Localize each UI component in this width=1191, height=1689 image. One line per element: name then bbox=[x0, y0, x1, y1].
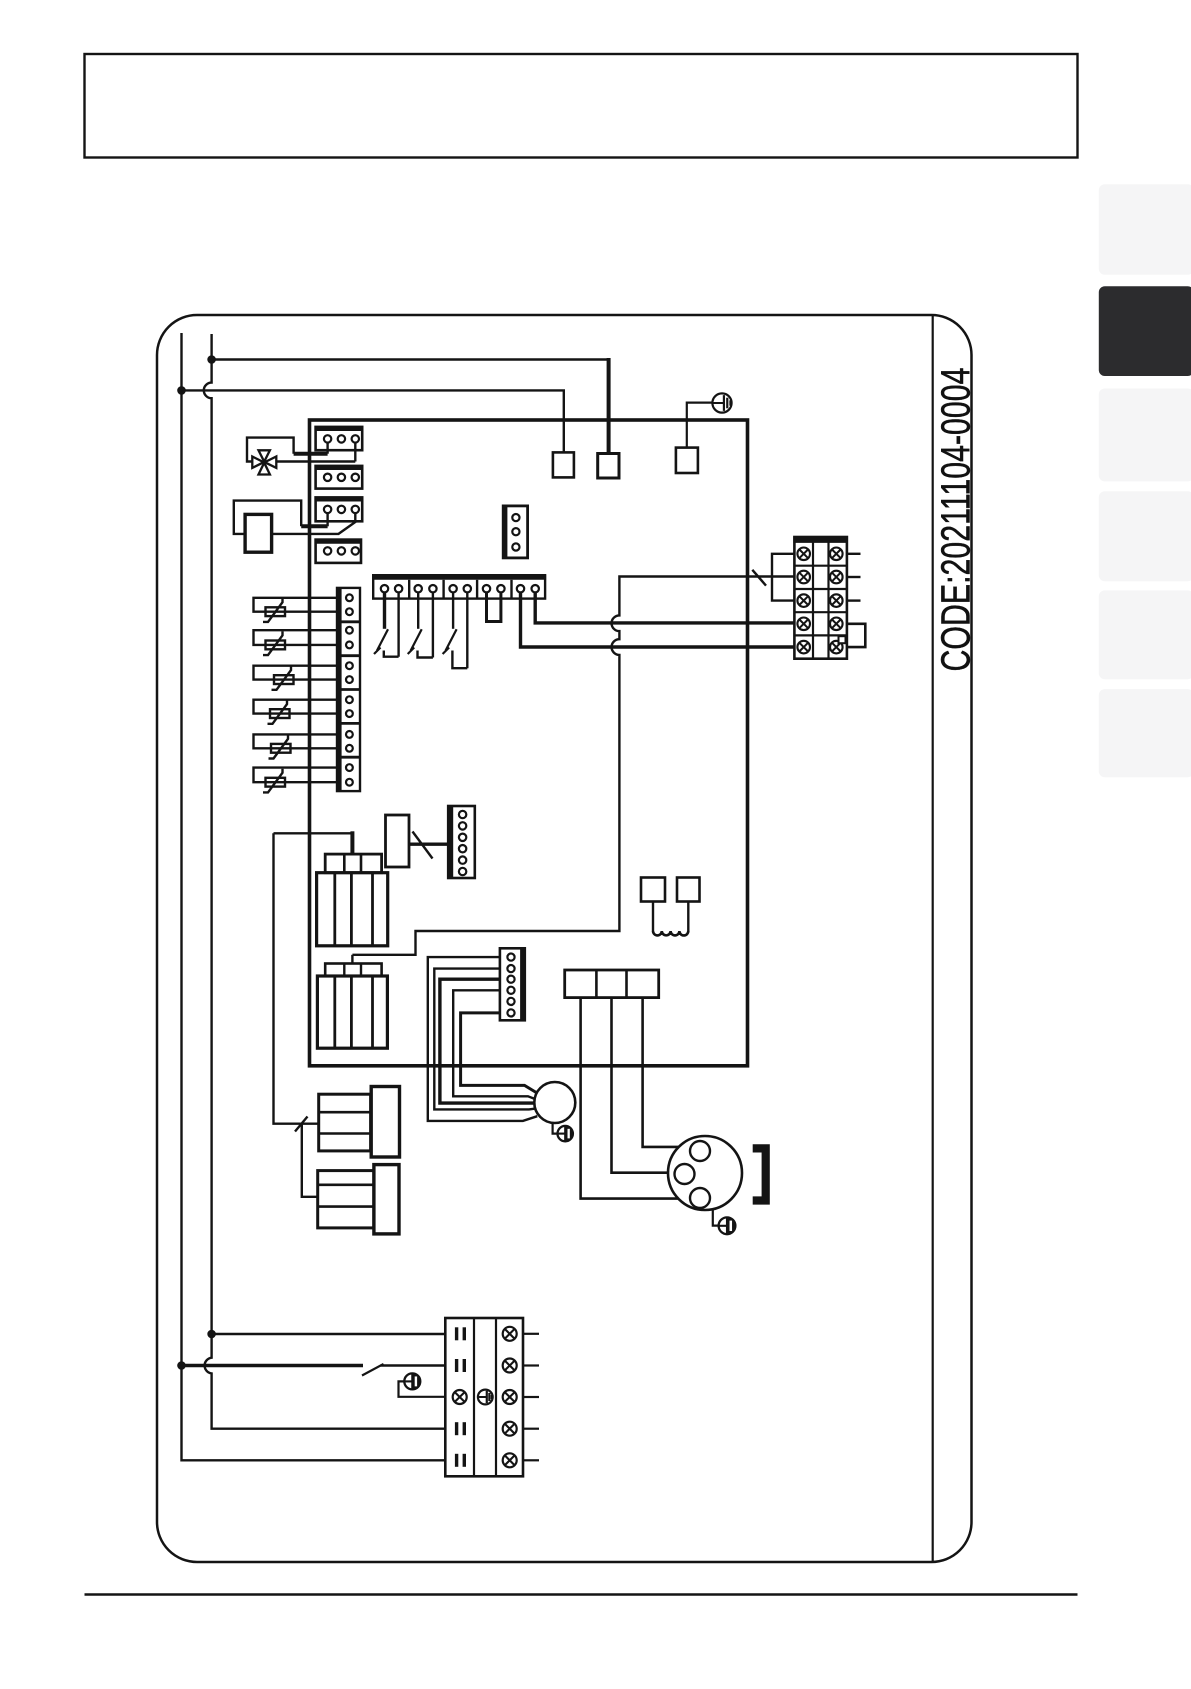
wire: plug earth bbox=[713, 1210, 719, 1226]
screw terminal TB2 row4 right bbox=[503, 1422, 517, 1436]
fuse mark row2 bbox=[455, 1359, 458, 1372]
wire: S3 to earth bbox=[687, 403, 713, 448]
screw TB1 row3 left bbox=[797, 594, 810, 607]
screw TB1 row4 right bbox=[830, 618, 843, 631]
wire K1 pin1 drop bbox=[326, 443, 328, 454]
wire: N to power terminal row1 bbox=[212, 1333, 446, 1335]
code strip divider bbox=[932, 315, 934, 1562]
wire: CN8 pin3 to pump bbox=[440, 979, 534, 1103]
wire: CN7 cell2 to plug bbox=[612, 998, 669, 1173]
crossing slash at board edge bbox=[752, 570, 766, 586]
earth symbol E1 bbox=[712, 393, 731, 412]
4-way valve Y1 bbox=[252, 450, 276, 474]
wire: TS1 pin10 to TB1 row4 bbox=[535, 592, 794, 623]
connector CN7 bbox=[565, 970, 659, 998]
switch blade SW6 bbox=[295, 1117, 308, 1132]
bottom rule bbox=[85, 1593, 1078, 1595]
compressor plug P1 bbox=[668, 1136, 742, 1210]
plug hole 2 bbox=[675, 1164, 695, 1184]
thermistor RT6 bbox=[254, 768, 338, 793]
wire: CN8 pin2 to pump bbox=[434, 969, 535, 1110]
wire: R2 to CN6 bbox=[409, 843, 448, 846]
wire: CN7 cell1 to plug bbox=[581, 998, 678, 1199]
wire: CN8 pin6 to pump bbox=[461, 1013, 536, 1093]
thermistor RT3 bbox=[254, 666, 338, 690]
ground screw G2 bbox=[558, 1126, 573, 1141]
relay RL1 body bbox=[245, 514, 272, 552]
component R2 bbox=[386, 815, 410, 867]
node: N bottom junction bbox=[207, 1330, 216, 1339]
thermistor RT1 bbox=[254, 598, 338, 622]
wire K3 pin1 drop bbox=[326, 513, 328, 526]
wire L (left vertical) bbox=[182, 333, 446, 1460]
mounting bracket bbox=[753, 1148, 766, 1200]
stub TB2 row3 bbox=[523, 1396, 539, 1398]
wire: RL1 right to K3 pin3 bbox=[272, 513, 356, 534]
side tab 5 bbox=[1099, 590, 1191, 679]
screw TB1 row4 left bbox=[797, 618, 810, 631]
wire: RB2 to TB1 row2 (long loop with hops) bbox=[352, 577, 794, 955]
side tab 3 bbox=[1099, 389, 1191, 482]
wire: TS1 pin9 to TB1 row5 bbox=[521, 592, 795, 647]
screw terminal TB2 row3 left bbox=[453, 1390, 467, 1404]
wire: left loop to RB3 bbox=[274, 833, 319, 1123]
stub TB1 right bbox=[847, 599, 861, 601]
switch SW2 (TS1 pins3-4) bbox=[408, 592, 433, 657]
stub TB2 row5 bbox=[523, 1459, 539, 1461]
wire N (second vertical with hops) bbox=[204, 334, 445, 1429]
plug hole 3 bbox=[690, 1188, 710, 1208]
wire: feed to relay bank RB1 bbox=[274, 832, 353, 834]
connector K2 bbox=[315, 466, 364, 489]
connector CN6 bbox=[448, 806, 475, 878]
wire: TB1 left bracket rows1-3 bbox=[772, 554, 794, 601]
wire: pump earth bbox=[553, 1122, 558, 1133]
wire: stub to relay bank RB2 bbox=[351, 955, 353, 964]
switch SW3 (TS1 pins5-6) bbox=[443, 592, 468, 668]
wire: top branch 1 to square S2 bbox=[212, 358, 609, 360]
wire: switch to power terminal row2 bbox=[381, 1364, 446, 1366]
wire: top branch 2 to square S1 bbox=[182, 390, 564, 452]
wire: TB1 rows4-5 right loop bbox=[847, 624, 865, 647]
wire: CN7 cell3 to plug bbox=[643, 998, 679, 1147]
stub TB2 row4 bbox=[523, 1428, 539, 1430]
node: L bottom junction bbox=[177, 1361, 186, 1370]
stub TB2 row2 bbox=[523, 1364, 539, 1366]
connector K1 bbox=[315, 427, 364, 450]
screw TB1 row2 right bbox=[830, 571, 843, 584]
stub TB1 right bbox=[847, 553, 861, 555]
switch blade (main switch) bbox=[362, 1364, 384, 1376]
screw TB1 row5 right bbox=[830, 641, 843, 654]
notch at TB1 row5 bbox=[839, 636, 846, 643]
pump M1 bbox=[534, 1082, 575, 1123]
square S2 bbox=[598, 454, 619, 479]
sensor strip TS2 bbox=[337, 588, 360, 791]
wire: RL1 loop to K3 pin1 bbox=[234, 501, 301, 534]
stub TB1 right bbox=[847, 576, 861, 578]
contact square RS1 bbox=[641, 878, 665, 902]
wire: RB3 junction down to RB4 bbox=[302, 1124, 318, 1197]
terminal block TB1 bbox=[794, 537, 847, 659]
square S3 bbox=[676, 448, 698, 473]
switch SW1 (TS1 pins1-2) bbox=[374, 592, 399, 656]
svg-text:CODE:20211104-0004: CODE:20211104-0004 bbox=[932, 367, 979, 671]
square S1 bbox=[553, 452, 574, 477]
screw terminal TB2 row5 right bbox=[503, 1453, 517, 1467]
screw TB1 row3 right bbox=[830, 594, 843, 607]
connector CN5 bbox=[503, 506, 527, 558]
wire: G1 to power terminal row3 bbox=[399, 1381, 446, 1396]
side tab 1 bbox=[1099, 184, 1191, 274]
power terminal block TB2 bbox=[445, 1318, 523, 1476]
title box bbox=[85, 54, 1078, 158]
relay bank RB1 bbox=[317, 854, 388, 946]
screw TB1 row1 left bbox=[797, 548, 810, 561]
wire: CN8 pin4 to pump bbox=[453, 990, 535, 1099]
screw terminal TB2 row2 right bbox=[503, 1359, 517, 1373]
wire: L thick feed to main switch bbox=[182, 1364, 364, 1368]
terminal strip TS1 bbox=[373, 575, 545, 598]
fuse mark row1 bbox=[455, 1327, 458, 1340]
screw TB1 row2 left bbox=[797, 571, 810, 584]
thermistor RT2 bbox=[254, 630, 338, 655]
screw terminal TB2 row1 right bbox=[503, 1327, 517, 1341]
fuse mark row4 bbox=[455, 1422, 458, 1435]
side tab 2 bbox=[1099, 286, 1191, 376]
node: L top junction bbox=[177, 386, 186, 395]
connector K3 bbox=[315, 497, 364, 521]
thermistor RT4 bbox=[254, 700, 338, 724]
link TS1 pins7-8 bbox=[487, 592, 501, 621]
screw terminal TB2 row3 right bbox=[503, 1390, 517, 1404]
relay coil RC1 bbox=[653, 902, 688, 936]
ground screw G1 bbox=[404, 1373, 420, 1389]
switch blade SW5 bbox=[413, 832, 433, 859]
connector CN8 bbox=[500, 948, 525, 1020]
connector K4 bbox=[315, 540, 362, 563]
control board outline bbox=[310, 420, 748, 1066]
relay bank RB2 bbox=[317, 964, 387, 1049]
schematic frame bbox=[157, 315, 972, 1562]
contact square RS2 bbox=[677, 878, 700, 902]
heater bank RB3 bbox=[319, 1087, 400, 1158]
thermistor RT5 bbox=[254, 734, 338, 758]
screw TB1 row5 left bbox=[797, 641, 810, 654]
side tab 4 bbox=[1099, 491, 1191, 581]
earth symbol TB2 bbox=[478, 1390, 493, 1405]
plug hole 1 bbox=[690, 1141, 710, 1161]
wire: valve loop to K1 bbox=[247, 438, 294, 462]
wire: CN8 pin1 to pump bbox=[428, 957, 538, 1121]
side tab 6 bbox=[1099, 689, 1191, 777]
stub TB2 row1 bbox=[523, 1333, 539, 1335]
fuse mark row5 bbox=[455, 1454, 458, 1467]
wire K1 pin3 drop bbox=[354, 443, 356, 462]
ground screw G3 bbox=[719, 1217, 736, 1234]
node: N top junction bbox=[207, 355, 216, 364]
screw TB1 row1 right bbox=[830, 548, 843, 561]
heater bank RB4 bbox=[318, 1165, 399, 1234]
wire valve to K1 pin3 bbox=[276, 460, 356, 462]
